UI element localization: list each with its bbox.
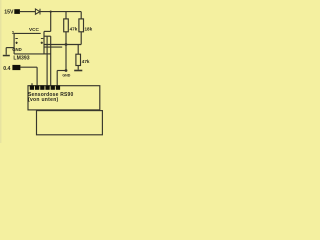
wire pad6 riser: [56, 71, 58, 87]
wire supply rail left of diode: [20, 11, 36, 13]
minus input left: [15, 37, 17, 40]
wire pad4 riser: [46, 36, 48, 86]
connector pad 5: [51, 85, 55, 89]
resistor R2 18k: [79, 19, 84, 32]
diode D1: [35, 9, 40, 15]
svg-text:(von unten): (von unten): [28, 97, 59, 103]
wire GND pin to ground: [6, 47, 14, 49]
supply flag 15V: [14, 9, 20, 14]
net flag 0.4: [12, 65, 20, 70]
svg-text:VCC: VCC: [29, 27, 40, 32]
wire R2 top lead: [80, 12, 82, 19]
scan edge band: [0, 0, 1, 143]
minus mark right: [41, 37, 43, 40]
wire R1 top lead: [65, 12, 67, 19]
svg-text:GND: GND: [12, 47, 22, 52]
wire R3 bottom lead: [77, 66, 79, 70]
wire 0.4 net: [20, 66, 37, 68]
connector pad 6: [56, 85, 60, 89]
svg-text:GND: GND: [62, 74, 70, 78]
wire pad1 stub: [31, 83, 33, 86]
junction dot rail/VCC: [50, 11, 52, 13]
connector pad 2: [35, 85, 39, 89]
wire stub at box bottom right: [44, 53, 51, 55]
svg-text:0.4: 0.4: [3, 66, 10, 72]
wire pad2 riser: [36, 67, 38, 86]
wire pad5 riser: [50, 36, 52, 86]
svg-text:1: 1: [12, 30, 15, 35]
connector pad 1: [30, 85, 34, 89]
svg-text:47k: 47k: [82, 59, 90, 64]
wire pin A stub: [44, 35, 51, 37]
svg-text:47k: 47k: [70, 27, 78, 32]
svg-text:LM393: LM393: [13, 56, 29, 62]
plus input left: [15, 42, 17, 44]
wire VCC drop vertical: [50, 12, 52, 32]
connector pad 4: [45, 85, 49, 89]
connector pad 3: [40, 85, 44, 89]
sensor box Sensordose RS90: [28, 86, 100, 110]
wire R1 bottom lead down through output node: [65, 32, 67, 71]
background: [0, 0, 109, 143]
svg-text:18k: 18k: [85, 27, 93, 32]
ground symbol under R3: [74, 70, 82, 72]
wire output node to pad6: [57, 70, 66, 72]
ground symbol IC: [3, 55, 10, 57]
svg-text:15V: 15V: [4, 10, 14, 16]
op-amp U1 LM393 box: [14, 31, 44, 54]
junction dot output/R1: [65, 43, 68, 46]
resistor R1 47k: [64, 19, 69, 32]
resistor R3 47k: [76, 54, 81, 65]
plus mark right: [41, 42, 43, 44]
wire comparator output pin B: [44, 44, 81, 46]
wire second output stub: [44, 46, 62, 48]
wire R2 bottom lead: [80, 32, 82, 45]
lower frame box: [37, 111, 103, 135]
wire R3 top lead: [77, 45, 79, 55]
junction dot output corner: [65, 69, 68, 72]
wire VCC horizontal into IC right edge: [44, 30, 51, 32]
wire rail after diode: [40, 11, 81, 13]
